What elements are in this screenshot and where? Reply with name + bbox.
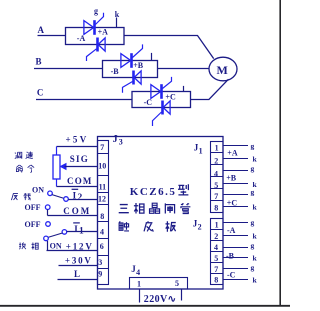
svg-text:I: I [73,191,77,201]
svg-text:3: 3 [119,137,123,146]
svg-text:g: g [251,164,255,173]
svg-text:k: k [253,155,258,164]
pin label g [251,188,255,197]
svg-text:KCZ6.5: KCZ6.5 [130,186,177,198]
wire phase A output to motor [124,36,214,59]
value label -A [227,226,236,235]
svg-text:5: 5 [214,181,218,190]
annotation 反转 (switch I2) [11,193,30,200]
wire J1-2 k (+A) [223,158,248,160]
svg-text:220V∿: 220V∿ [144,294,177,305]
J3 pin 6 [100,242,104,251]
value label -B [226,251,235,260]
switch I2 blade [52,195,64,199]
wire 220V line 2 [181,289,183,301]
svg-text:k: k [253,232,258,241]
svg-text:g: g [251,188,255,197]
pin label g [251,241,255,250]
label COM (lower) [63,206,91,216]
svg-text:4: 4 [100,228,104,237]
svg-text:7: 7 [100,143,104,152]
J3 pin 11 [99,183,107,192]
svg-text:2: 2 [214,232,218,241]
svg-text:k: k [253,275,258,284]
value label -C [227,270,236,279]
J3 pin 10 [98,162,106,171]
J3 pin 9 [98,269,102,278]
svg-text:k: k [115,10,120,19]
wire phase A input [38,35,66,37]
svg-text:OFF: OFF [25,220,41,229]
J1 pin 4 [214,170,218,179]
svg-text:+B: +B [226,174,237,183]
wire phase B output to motor [158,68,209,70]
pin label k [253,232,258,241]
wire I2 OFF contact to COM [47,210,49,216]
label I1 (overbar) [73,223,84,236]
thyristor -B [134,71,142,85]
wire phase B input [34,68,103,70]
wire +30V to J3 pin 3 [59,265,98,267]
node C phase input label [37,88,44,98]
board title 三相晶闸管 [119,203,191,214]
page divider horizontal line [0,305,290,307]
gate lead of -C [153,112,162,126]
module box phase B [103,61,158,78]
connector J4 strip [130,278,188,290]
svg-text:10: 10 [98,162,106,171]
J2 pin 4 [214,243,218,252]
svg-text:5: 5 [214,254,218,263]
svg-text:-A: -A [227,226,236,235]
wire 220V line 1 [139,289,141,303]
connector J3 label [113,134,123,147]
wire COM to J3 pin 8 [48,215,98,217]
J1 pin 7 [214,192,218,201]
cathode lead k of +B [151,53,153,61]
svg-text:ON: ON [32,185,44,194]
wire J2-7 g (-C) [223,268,248,270]
svg-text:8: 8 [214,276,218,285]
switch I1 OFF contact [46,222,51,227]
node A phase input label [38,25,45,35]
board title KCZ6.5型 [130,184,189,198]
value label +A [227,148,238,157]
svg-text:M: M [217,63,228,77]
thyristor -C [163,101,171,115]
svg-text:11: 11 [99,183,107,192]
svg-text:L: L [74,269,80,279]
motor M [209,57,237,81]
wire COM to J3 pin 11 [57,186,98,188]
wire SIG to J3 pin 10 [65,166,98,168]
J4 pin 1 [137,280,141,289]
wire I2 to J3 pin 12 [68,199,97,201]
svg-text:-A: -A [77,34,86,43]
label +30V [65,255,93,265]
pin label k [253,203,258,212]
svg-text:2: 2 [78,193,83,203]
thyristor +C [151,84,162,99]
svg-text:2: 2 [198,223,202,232]
svg-text:SIG: SIG [70,154,89,164]
potentiometer lead bottom [56,179,58,187]
svg-text:7: 7 [214,265,218,274]
svg-text:g: g [251,218,255,227]
wire J2-5 k (-B) [223,257,248,259]
label +12V [66,241,94,251]
wire J1-4 g (+B) [223,170,248,172]
svg-text:7: 7 [214,192,218,201]
J2 pin 7 [214,265,218,274]
J1 pin 1 [215,143,219,152]
svg-text:4: 4 [214,170,218,179]
switch I1 ON contact [44,236,49,241]
thyristor -A [98,38,106,52]
label ON (switch I2) [32,185,44,194]
svg-text:4: 4 [214,243,218,252]
cathode lead k of +C [183,86,185,92]
annotation 命令 [16,165,34,173]
value label +A [98,28,109,37]
module box phase C [132,92,191,108]
svg-text:B: B [36,57,42,67]
J2 pin 2 [214,232,218,241]
connector J2 label [193,219,202,232]
switch I2 ON contact [48,191,53,196]
wire I1 ON contact to +12V [47,241,49,251]
pin label g [251,164,255,173]
svg-text:8: 8 [214,204,218,213]
svg-text:1: 1 [215,221,219,230]
pin label g [251,218,255,227]
wire J1-8 k (+C) [223,206,248,208]
svg-text:J: J [113,134,118,145]
svg-text:A: A [38,25,45,35]
value label +B [226,174,237,183]
svg-text:9: 9 [98,269,102,278]
svg-text:COM: COM [67,176,93,186]
value label -C [144,98,153,107]
svg-text:OFF: OFF [25,203,41,212]
node B phase input label [36,57,42,67]
svg-text:+30V: +30V [65,255,93,265]
svg-text:8: 8 [100,212,104,221]
potentiometer SIG [53,155,60,179]
wire J2-1 g (-A) [223,222,248,224]
wire phase C input [36,99,132,101]
value label -B [111,67,120,76]
label OFF (switch I1) [25,220,41,229]
pin label k (phase A) [115,10,120,19]
potentiometer lead top [56,147,58,156]
potentiometer wiper arrow [61,164,67,170]
value label -A [77,34,86,43]
label 220V~ [144,294,177,305]
annotation 换相 (switch I1) [19,243,38,250]
J3 pin 12 [98,194,106,203]
thyristor +A [84,20,95,35]
pin label k [253,254,258,263]
switch I1 pole contact [62,230,67,235]
label L [74,269,80,279]
connector J3 strip [98,141,109,285]
svg-text:C: C [37,88,44,98]
page divider vertical line [279,0,281,306]
wire phase C output to motor [191,79,229,99]
wire +12V to J3 pin 6 [47,250,98,252]
gate lead of +C [163,77,172,89]
svg-text:3: 3 [98,258,102,267]
wire J1-1 g (+A) [223,145,248,147]
gate lead g of +A [95,13,103,25]
label I2 (overbar) [72,189,83,203]
value label +C [227,198,238,207]
connector J2 strip [211,219,224,285]
svg-text:+A: +A [98,28,109,37]
switch I2 pole contact [64,197,69,202]
pin label g (phase A) [94,7,98,16]
label SIG [70,154,89,164]
svg-text:ON: ON [50,242,62,251]
svg-text:k: k [253,203,258,212]
svg-text:g: g [251,241,255,250]
wire J2-4 g (-B) [223,247,248,249]
gate lead of +B [133,44,143,57]
svg-text:1: 1 [215,143,219,152]
svg-text:2: 2 [214,156,218,165]
gate lead of -B [123,82,133,93]
pin label k [253,275,258,284]
svg-text:COM: COM [63,206,91,216]
svg-text:-C: -C [227,270,236,279]
pin label g [251,141,255,150]
J1 pin 8 [214,204,218,213]
label +5V [66,134,89,144]
switch I1 blade [48,233,62,237]
gate lead of -A [87,49,97,61]
pin label k [253,155,258,164]
value label +C [165,92,176,101]
svg-text:I: I [74,224,78,234]
wire J1-5 k (+B) [223,183,248,185]
J3 pin 7 [100,143,104,152]
J1 pin 2 [214,156,218,165]
value label +B [133,61,144,70]
pin label k [253,180,258,189]
svg-text:1: 1 [137,280,141,289]
svg-text:5: 5 [175,279,179,288]
wire L to J3 pin 9 [58,279,98,281]
J3 pin 8 [100,212,104,221]
svg-text:1: 1 [199,147,203,156]
J1 pin 5 [214,181,218,190]
connector J1 strip [211,142,224,213]
label ON (switch I1) [50,242,62,251]
J2 pin 1 [215,221,219,230]
wire J2-2 k (-A) [223,235,248,237]
board title 触发板 [119,221,176,232]
wire I1 to J3 pin 4 [67,231,98,233]
svg-text:k: k [253,254,258,263]
svg-text:6: 6 [100,242,104,251]
connector J1 label [194,143,203,156]
J4 pin 5 [175,279,179,288]
connector J4 label [131,264,140,277]
module box phase A [66,28,125,45]
J3 pin 3 [98,258,102,267]
J2 pin 5 [214,254,218,263]
cathode lead k of +A [116,18,118,28]
svg-text:-C: -C [144,98,153,107]
wire J2-8 k (-C) [223,279,248,281]
label COM (upper) [67,176,93,186]
annotation 调速 [15,152,33,159]
svg-text:12: 12 [98,194,106,203]
J3 pin 4 [100,228,104,237]
svg-text:-B: -B [226,251,235,260]
wire J1-7 g (+C) [223,194,248,196]
wire +5V to J3 pin 7 [57,146,98,148]
svg-text:g: g [94,7,98,16]
svg-text:+B: +B [133,61,144,70]
svg-text:g: g [251,141,255,150]
svg-text:g: g [251,263,255,272]
svg-text:4: 4 [136,268,140,277]
svg-text:+5V: +5V [66,134,89,144]
switch I2 OFF contact [45,205,50,210]
label OFF (switch I2) [25,203,41,212]
svg-text:+12V: +12V [66,241,94,251]
J2 pin 8 [214,276,218,285]
trigger board outline [98,137,224,290]
thyristor +B [121,53,132,68]
svg-text:+A: +A [227,148,238,157]
pin label g [251,263,255,272]
svg-text:-B: -B [111,67,120,76]
